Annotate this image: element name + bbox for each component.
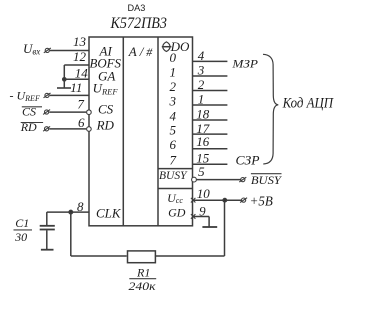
wire pin 8 CLK [47, 211, 90, 213]
svg-text:7: 7 [77, 96, 84, 111]
value label R1 / 240к [129, 266, 157, 293]
ground stub of 12-14 tie [57, 79, 71, 88]
svg-text:К572ПВ3: К572ПВ3 [110, 15, 167, 32]
svg-text:18: 18 [196, 106, 210, 121]
wire CLK junction down to R1 [70, 212, 72, 256]
input terminal -Uref [10, 89, 51, 104]
power terminal +5В [240, 193, 273, 208]
wire DO5 pin 17 [193, 133, 228, 135]
wire pin 7 [49, 111, 86, 113]
svg-text:- UREF: - UREF [10, 89, 40, 104]
svg-text:6: 6 [170, 137, 177, 152]
wire DO7 pin 15 [193, 163, 228, 165]
svg-text:240к: 240к [129, 279, 156, 293]
IC DA3 body [89, 37, 193, 226]
inversion circle pin 5 BUSY [192, 177, 197, 182]
svg-text:2: 2 [198, 77, 205, 92]
wire DO2 pin 2 [193, 90, 228, 92]
capacitor C1 [40, 226, 55, 230]
svg-text:RD: RD [96, 118, 115, 133]
wire pin 9 [193, 217, 210, 227]
svg-text:3: 3 [169, 94, 177, 109]
svg-text:CS: CS [22, 105, 36, 119]
svg-text:CLK: CLK [96, 205, 122, 220]
input terminal Uвх [23, 41, 51, 57]
svg-text:3: 3 [197, 62, 205, 77]
ground below pin 9 [202, 226, 217, 228]
resistor R1 [128, 251, 156, 263]
svg-text:Uвх: Uвх [23, 41, 40, 57]
inversion circle pin 6 [87, 127, 92, 132]
wire pin 13 [50, 50, 89, 52]
svg-text:1: 1 [198, 91, 205, 106]
wire R1 up to +5V node [224, 200, 226, 256]
output terminal BUSY [239, 173, 282, 187]
svg-text:МЗР: МЗР [231, 57, 258, 71]
wire DO4 pin 18 [193, 119, 228, 121]
wire pin 10 [193, 199, 242, 201]
wire bottom left segment [71, 255, 127, 257]
junction 12-14 tie [63, 78, 66, 81]
svg-text:+5В: +5В [250, 193, 273, 208]
wire DO1 pin 3 [193, 75, 228, 77]
wire pin 6 [49, 128, 86, 130]
non-logic pin mark Ucc [191, 198, 196, 203]
svg-text:DA3: DA3 [128, 3, 146, 13]
svg-text:СЗР: СЗР [236, 153, 260, 167]
svg-text:5: 5 [198, 164, 205, 179]
wire pin 5 [197, 179, 241, 181]
svg-text:RD: RD [20, 120, 37, 134]
svg-text:10: 10 [197, 186, 211, 201]
svg-text:Ucc: Ucc [167, 191, 183, 205]
junction CLK node [69, 210, 72, 213]
svg-text:9: 9 [199, 203, 206, 218]
svg-text:14: 14 [75, 65, 89, 80]
svg-text:BUSY: BUSY [251, 173, 282, 187]
svg-text:6: 6 [78, 115, 85, 130]
svg-text:4: 4 [170, 109, 177, 124]
svg-text:30: 30 [14, 230, 27, 244]
svg-text:А/#: А/# [128, 44, 154, 59]
wire DO0 pin 4 [193, 60, 228, 62]
wire C1 to ground [46, 230, 48, 249]
wire bottom right segment [155, 255, 225, 257]
value label C1 / 30 [14, 216, 33, 244]
svg-text:GD: GD [168, 205, 186, 219]
tristate output symbol and DO header [162, 39, 190, 54]
svg-text:8: 8 [77, 199, 84, 214]
wire CLK to C1 [46, 212, 48, 225]
wire tie 12-14 [63, 65, 65, 79]
junction +5V node [223, 199, 226, 202]
svg-text:2: 2 [170, 79, 177, 94]
ground below C1 [41, 249, 54, 251]
svg-text:0: 0 [170, 50, 177, 65]
wire pin 11 [50, 94, 90, 96]
wire DO3 pin 1 [193, 104, 228, 106]
input terminal RD [20, 120, 50, 134]
svg-text:4: 4 [198, 48, 205, 63]
svg-text:16: 16 [196, 134, 210, 149]
input terminal CS [22, 105, 50, 119]
wire pin 14 [64, 78, 89, 80]
svg-text:15: 15 [196, 150, 210, 165]
wire DO6 pin 16 [193, 148, 228, 150]
svg-text:1: 1 [170, 65, 177, 80]
svg-text:CS: CS [98, 102, 114, 117]
svg-text:R1: R1 [136, 266, 150, 280]
wire pin 12 [64, 64, 89, 66]
svg-text:5: 5 [170, 123, 177, 138]
svg-text:C1: C1 [15, 216, 29, 230]
svg-text:Код АЦП: Код АЦП [282, 96, 334, 112]
svg-text:11: 11 [70, 80, 82, 95]
brace for output bus [263, 54, 278, 164]
svg-text:12: 12 [73, 49, 87, 64]
svg-text:7: 7 [170, 153, 177, 168]
inversion circle pin 7 [87, 110, 92, 115]
svg-text:13: 13 [73, 34, 87, 49]
svg-text:BUSY: BUSY [159, 168, 188, 182]
non-logic pin mark GD [191, 214, 196, 219]
